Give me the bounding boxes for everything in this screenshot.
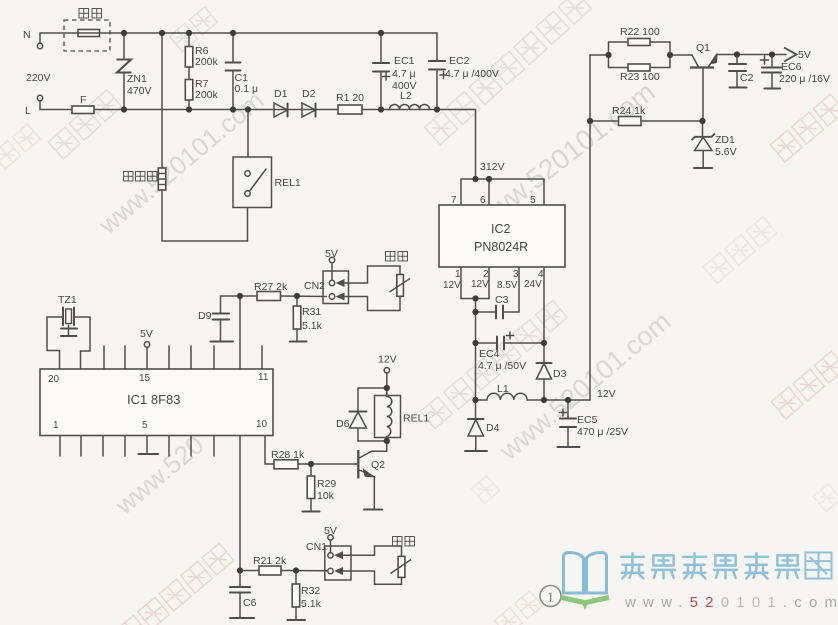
node 5V pin15 bbox=[140, 328, 153, 347]
svg-text:6: 6 bbox=[480, 195, 486, 206]
wire N top rail bbox=[40, 32, 437, 34]
svg-text:7: 7 bbox=[451, 195, 457, 206]
svg-text:IC1 8F83: IC1 8F83 bbox=[127, 392, 180, 407]
pin 15 label bbox=[139, 373, 151, 384]
svg-text:N: N bbox=[23, 29, 31, 41]
svg-text:D6: D6 bbox=[336, 418, 350, 430]
svg-text:1: 1 bbox=[547, 591, 554, 606]
svg-text:5V: 5V bbox=[140, 328, 153, 340]
svg-text:470V: 470V bbox=[127, 85, 152, 97]
connector CN1 bbox=[306, 541, 351, 580]
svg-text:4.7 μ: 4.7 μ bbox=[392, 68, 416, 80]
diode D6 bbox=[336, 388, 387, 441]
svg-text:12V: 12V bbox=[597, 388, 616, 400]
wire IC1 pin10 to R28 bbox=[265, 436, 274, 465]
wire Q2 base bbox=[357, 463, 359, 465]
transistor Q1 bbox=[670, 42, 718, 121]
svg-text:L1: L1 bbox=[497, 383, 509, 395]
wire CN1 to magnet sensor bbox=[343, 546, 402, 584]
node 220V label bbox=[26, 72, 51, 84]
node 312V bbox=[480, 161, 505, 173]
resistor R28 1k bbox=[271, 449, 357, 469]
svg-text:5.1k: 5.1k bbox=[301, 598, 322, 610]
svg-text:R23 100: R23 100 bbox=[620, 71, 660, 83]
node N terminal bbox=[23, 29, 43, 49]
node 5V CN2 bbox=[325, 248, 338, 280]
svg-text:5.6V: 5.6V bbox=[715, 146, 737, 158]
pin 1 label 12V bbox=[443, 269, 461, 291]
thermistor magnet 磁钢 bbox=[391, 537, 415, 578]
svg-text:R29: R29 bbox=[317, 478, 336, 490]
svg-text:R21 2k: R21 2k bbox=[253, 555, 287, 567]
ground D9 bbox=[211, 341, 234, 343]
wire L bottom rail bbox=[40, 109, 437, 111]
ground R29 bbox=[303, 511, 320, 513]
node L terminal bbox=[25, 95, 43, 117]
svg-text:4.7 μ /50V: 4.7 μ /50V bbox=[478, 360, 526, 372]
capacitor C6 bbox=[230, 571, 257, 619]
capacitor C2 bbox=[729, 55, 754, 88]
svg-text:5V: 5V bbox=[798, 49, 811, 61]
svg-text:D1: D1 bbox=[274, 88, 288, 100]
op-amp U2 IC1 8F83 bbox=[40, 369, 273, 436]
svg-text:F: F bbox=[80, 94, 86, 106]
svg-text:20: 20 bbox=[48, 374, 60, 385]
pin 6 label bbox=[480, 195, 486, 206]
wire IC1 pin to R21 bbox=[239, 436, 241, 571]
svg-text:ZN1: ZN1 bbox=[127, 73, 147, 85]
resistor R27 2k bbox=[240, 281, 327, 301]
wire IC1 top pin stubs bbox=[104, 346, 262, 369]
diode D1 bbox=[274, 88, 288, 117]
logo url www.520101.com bbox=[624, 594, 838, 611]
fuse F bbox=[72, 94, 94, 114]
ground R32 bbox=[288, 619, 306, 621]
ground EC6 bbox=[765, 88, 781, 90]
svg-text:R28 1k: R28 1k bbox=[271, 449, 305, 461]
svg-text:470 μ /25V: 470 μ /25V bbox=[577, 426, 628, 438]
ground IC1 pin5 bbox=[139, 436, 159, 455]
svg-text:REL1: REL1 bbox=[403, 413, 429, 425]
svg-text:R1 20: R1 20 bbox=[336, 92, 364, 104]
wire 12V riser bbox=[590, 55, 609, 400]
node 12V terminal bbox=[378, 354, 397, 397]
svg-text:1: 1 bbox=[53, 420, 59, 431]
pin 20 label bbox=[48, 374, 60, 385]
resistor R21 2k bbox=[240, 555, 327, 575]
reed switch element inside dashed box bbox=[78, 30, 100, 37]
svg-text:15: 15 bbox=[139, 373, 151, 384]
svg-text:D3: D3 bbox=[553, 368, 567, 380]
svg-text:L2: L2 bbox=[400, 90, 412, 102]
ground Q2 bbox=[364, 509, 382, 511]
svg-text:EC4: EC4 bbox=[479, 348, 500, 360]
svg-text:4.7 μ /400V: 4.7 μ /400V bbox=[445, 68, 499, 80]
ground EC5 bbox=[558, 446, 580, 448]
capacitor EC6 220u/16V bbox=[761, 55, 831, 89]
wire CN2 to pot-lid sensor bbox=[345, 266, 401, 311]
svg-text:C3: C3 bbox=[495, 294, 509, 306]
svg-text:TZ1: TZ1 bbox=[58, 294, 77, 306]
svg-text:D9: D9 bbox=[198, 310, 212, 322]
logo book icon bbox=[561, 553, 609, 611]
svg-text:Q2: Q2 bbox=[371, 459, 385, 471]
svg-text:D2: D2 bbox=[302, 88, 316, 100]
svg-text:IC2: IC2 bbox=[491, 222, 511, 236]
svg-text:10k: 10k bbox=[317, 490, 335, 502]
diode D2 bbox=[302, 88, 316, 117]
logo circled number 1 bbox=[540, 586, 561, 607]
svg-text:220V: 220V bbox=[26, 72, 51, 84]
svg-text:ZD1: ZD1 bbox=[715, 134, 735, 146]
svg-text:1: 1 bbox=[455, 269, 461, 280]
svg-text:0.1 μ: 0.1 μ bbox=[235, 83, 259, 95]
op-amp U1 IC2 PN8024R bbox=[439, 205, 565, 267]
resistor R1 20 bbox=[336, 92, 364, 114]
pin 11 label bbox=[258, 372, 269, 383]
node 5V arrow bbox=[784, 48, 811, 62]
resistor R29 10k bbox=[307, 464, 336, 512]
svg-text:EC5: EC5 bbox=[577, 414, 598, 426]
svg-text:R22 100: R22 100 bbox=[620, 26, 660, 38]
wire 12V branch vertical bbox=[475, 299, 477, 401]
svg-text:24V: 24V bbox=[524, 279, 542, 290]
svg-text:REL1: REL1 bbox=[275, 177, 301, 189]
pin 5 label bbox=[530, 195, 536, 206]
inductor L2 bbox=[390, 90, 430, 110]
node 12V rail label bbox=[597, 388, 616, 400]
capacitor D9 bbox=[198, 296, 240, 342]
svg-text:CN2: CN2 bbox=[304, 280, 325, 292]
magnetic-steel switch dashed box 磁钢 bbox=[64, 9, 110, 51]
relay contact REL1 bbox=[233, 110, 301, 208]
svg-text:200k: 200k bbox=[195, 89, 219, 101]
ground D4 bbox=[465, 450, 487, 452]
svg-text:PN8024R: PN8024R bbox=[474, 240, 528, 254]
capacitor EC4 4.7u/50V bbox=[476, 332, 545, 372]
capacitor EC1 4.7u 400V bbox=[373, 33, 417, 110]
wire IC2 pin1 pin2 join bbox=[461, 267, 489, 299]
svg-text:5V: 5V bbox=[325, 248, 338, 260]
svg-text:5.1k: 5.1k bbox=[302, 320, 323, 332]
svg-text:10: 10 bbox=[256, 419, 268, 430]
ground C6 bbox=[230, 617, 254, 619]
svg-text:12V: 12V bbox=[378, 354, 397, 366]
svg-text:11: 11 bbox=[258, 372, 269, 383]
crystal TZ1 bbox=[47, 294, 90, 369]
pin 7 label bbox=[451, 195, 457, 206]
zener ZD1 5.6V bbox=[692, 121, 737, 168]
svg-text:12V: 12V bbox=[471, 279, 489, 290]
capacitor EC2 4.7u/400V bbox=[429, 33, 499, 110]
pin 5 label bbox=[142, 420, 148, 431]
ground C2 bbox=[730, 87, 747, 89]
wire heater to relay bbox=[162, 190, 248, 241]
svg-text:CN1: CN1 bbox=[306, 541, 327, 553]
varistor ZN1 470V bbox=[117, 33, 152, 110]
resistor R24 1k bbox=[590, 105, 703, 126]
pin 1 label bbox=[53, 420, 59, 431]
relay coil REL1 bbox=[375, 396, 430, 438]
pin 4 label 24V bbox=[524, 269, 544, 290]
svg-text:3: 3 bbox=[513, 269, 519, 280]
ground R31 bbox=[290, 341, 307, 343]
resistor R6 200k bbox=[185, 33, 218, 68]
svg-text:5V: 5V bbox=[324, 525, 337, 537]
wire IC1 pin11 riser bbox=[239, 296, 241, 369]
transistor Q2 bbox=[358, 438, 387, 510]
svg-text:312V: 312V bbox=[480, 161, 505, 173]
wire IC2 top pin bus bbox=[461, 179, 544, 205]
svg-text:EC1: EC1 bbox=[394, 55, 415, 67]
thermistor pot-lid 锅盖 bbox=[386, 252, 410, 297]
inductor L1 bbox=[476, 383, 591, 400]
svg-text:R24 1k: R24 1k bbox=[612, 105, 646, 117]
ground ZD1 bbox=[694, 167, 712, 169]
pin 2 label 12V bbox=[471, 269, 489, 290]
resistor R23 100 bbox=[609, 42, 671, 83]
svg-text:R27 2k: R27 2k bbox=[254, 281, 288, 293]
resistor R31 5.1k bbox=[293, 296, 322, 342]
capacitor EC5 470u/25V bbox=[560, 400, 629, 447]
svg-text:200k: 200k bbox=[195, 56, 219, 68]
svg-text:Q1: Q1 bbox=[696, 42, 710, 54]
svg-text:D4: D4 bbox=[486, 422, 500, 434]
diode D4 bbox=[468, 400, 500, 451]
svg-text:C2: C2 bbox=[740, 72, 754, 84]
svg-text:12V: 12V bbox=[443, 280, 461, 291]
svg-text:C6: C6 bbox=[243, 597, 257, 609]
svg-text:www.520101.com: www.520101.com bbox=[624, 594, 838, 611]
resistor R22 100 bbox=[609, 26, 671, 68]
logo site name 家电维修资料网 bbox=[621, 552, 832, 578]
diode D3 bbox=[537, 267, 567, 400]
resistor R32 5.1k bbox=[292, 571, 321, 621]
svg-text:EC6: EC6 bbox=[781, 61, 802, 73]
pin 3 label 8.5V bbox=[497, 269, 519, 291]
capacitor C1 0.1u bbox=[226, 33, 259, 110]
wire rectified rail to IC2 bbox=[437, 110, 476, 180]
connector CN2 bbox=[304, 271, 349, 304]
svg-text:8.5V: 8.5V bbox=[497, 280, 518, 291]
pin 10 label bbox=[256, 419, 268, 430]
svg-text:R32: R32 bbox=[301, 585, 320, 597]
node 5V CN1 bbox=[324, 525, 337, 553]
resistor R7 200k bbox=[185, 67, 218, 110]
capacitor C3 bbox=[476, 267, 520, 319]
svg-text:5: 5 bbox=[142, 420, 148, 431]
wire 5V output rail bbox=[717, 54, 787, 56]
svg-text:5: 5 bbox=[530, 195, 536, 206]
heating plate 电热盘 bbox=[124, 33, 166, 190]
svg-text:220 μ /16V: 220 μ /16V bbox=[779, 73, 830, 85]
wire IC1 bottom pin stubs bbox=[60, 436, 214, 457]
svg-text:R31: R31 bbox=[302, 306, 321, 318]
svg-text:EC2: EC2 bbox=[449, 55, 470, 67]
svg-text:L: L bbox=[25, 105, 31, 117]
